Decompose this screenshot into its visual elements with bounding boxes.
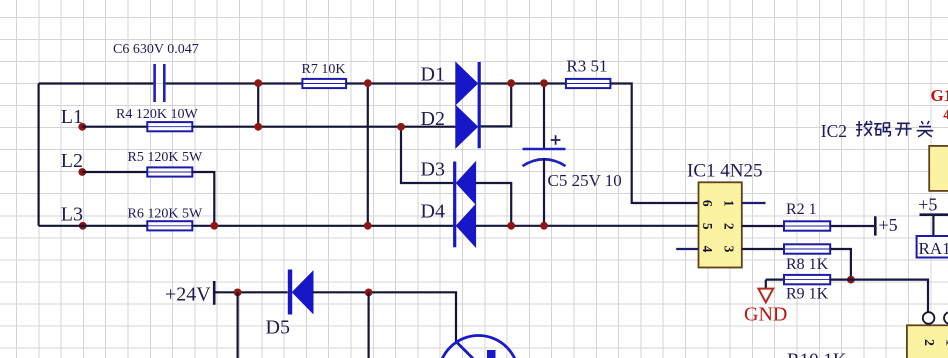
node junction bottom row at x511: [507, 222, 515, 230]
svg-text:R4 120K 10W: R4 120K 10W: [116, 107, 198, 122]
diode D1: [456, 63, 478, 105]
ground GND symbol: [758, 280, 773, 303]
transistor Q1 (partial circle): [439, 336, 519, 358]
wire: vertical from D1 row down then left to D2 cathode: [481, 84, 512, 127]
wire: D5 to transistor branch: [313, 292, 456, 342]
Chinese character guan (close): [917, 121, 934, 137]
svg-text:D3: D3: [421, 159, 445, 181]
node junction D1 row at x511: [507, 79, 515, 87]
resistor R8: [784, 244, 830, 253]
wire: left vertical bus: [37, 84, 39, 226]
wire: pin2 to R2: [742, 225, 784, 227]
node junction at x237: [234, 289, 242, 297]
wire: bottom row middle segment to D4: [192, 225, 453, 227]
svg-text:+24V: +24V: [165, 283, 211, 305]
node junction bottom row at x214: [210, 222, 218, 230]
resistor R5: [147, 167, 192, 176]
svg-text:L3: L3: [61, 204, 83, 226]
svg-text:2: 2: [722, 223, 737, 230]
capacitor C5: [523, 84, 566, 226]
capacitor C6: [155, 64, 165, 102]
svg-text:G1: G1: [931, 86, 948, 105]
node L2 terminal dot: [78, 168, 86, 176]
wire: R4 to D2 anode: [192, 126, 456, 128]
node junction bottom row at C5: [540, 222, 548, 230]
resistor R2: [784, 221, 830, 230]
wire: R7 to D1: [346, 82, 456, 84]
svg-text:C5 25V 10: C5 25V 10: [548, 171, 622, 190]
svg-text:3: 3: [722, 246, 737, 253]
svg-text:2: 2: [921, 339, 936, 346]
diode D5: [290, 270, 313, 315]
wire: vertical down from x237: [237, 292, 239, 358]
svg-text:D2: D2: [421, 108, 445, 130]
Chinese character ma (code): [874, 123, 890, 136]
wire: pin4 stub: [676, 248, 698, 250]
svg-text:R2 1: R2 1: [786, 201, 817, 218]
part RA1 box: [917, 236, 948, 258]
op-coupler IC1 4N25 body: [699, 182, 742, 267]
wire: +24V to D5: [214, 291, 287, 293]
Chinese character kai (open): [895, 123, 912, 135]
wire: C6 to R7: [166, 82, 303, 84]
svg-text:D5: D5: [266, 317, 290, 339]
wire: L1 to R4: [82, 126, 147, 128]
Chinese character bo (dial): [856, 121, 873, 136]
D3/D4 shared cathode bar: [453, 162, 456, 248]
svg-text:4: 4: [700, 246, 715, 253]
node junction on L1 row: [254, 123, 262, 131]
node junction R7 right: [364, 79, 372, 87]
node L1 terminal dot: [78, 123, 86, 131]
diode D2: [456, 106, 478, 148]
wire: D1 cathode row to R3: [481, 82, 566, 84]
svg-text:IC2: IC2: [821, 121, 847, 141]
svg-text:1: 1: [942, 339, 948, 346]
power port +24V: [213, 281, 216, 305]
svg-text:6: 6: [700, 200, 715, 207]
resistor R3: [566, 79, 611, 88]
svg-text:L2: L2: [61, 150, 83, 172]
diode D4: [456, 205, 475, 247]
node L3 terminal dot: [79, 222, 87, 230]
wire: D2 dot down to D3: [401, 127, 453, 183]
svg-text:1: 1: [722, 200, 737, 207]
svg-text:L1: L1: [61, 106, 83, 128]
connector circle IC2 pin 2: [923, 312, 935, 324]
resistor R6: [147, 221, 192, 230]
diode D3: [456, 162, 475, 204]
wire: bottom row left segment: [39, 225, 148, 227]
wire: vertical C6/R7 junction down to L1 row: [257, 84, 259, 127]
wire: vertical R7 junction down to bottom row: [367, 84, 369, 226]
svg-text:R10 1K: R10 1K: [787, 350, 847, 358]
wire: D3 anode right then down to bottom row: [476, 183, 512, 226]
wire: pin3 to R8: [742, 248, 784, 250]
svg-text:RA1: RA1: [919, 239, 948, 258]
svg-text:R5 120K 5W: R5 120K 5W: [128, 150, 203, 165]
wire: top row left segment to C6: [39, 82, 154, 84]
node junction at x368: [365, 289, 373, 297]
node junction D1 row at C5: [540, 79, 548, 87]
connector circle IC2 pin 1 (partial): [944, 312, 948, 324]
svg-text:R6 120K 5W: R6 120K 5W: [128, 207, 203, 222]
svg-text:D4: D4: [421, 200, 445, 222]
wire: R5 right then down to bottom row: [192, 172, 214, 226]
svg-text:R3 51: R3 51: [566, 56, 607, 75]
svg-text:D1: D1: [421, 64, 445, 86]
wire: L2 to R5: [82, 171, 147, 173]
wire: R2 to +5 port: [830, 225, 875, 227]
svg-text:R8 1K: R8 1K: [786, 256, 829, 273]
power port +5 (top right): [920, 215, 948, 236]
svg-text:C6 630V 0.047: C6 630V 0.047: [113, 42, 199, 57]
node junction C6-R7: [254, 79, 262, 87]
wire: GND to R9: [766, 279, 784, 281]
node junction bottom row at x367: [364, 222, 372, 230]
wire: bottom row from D4 to IC1 pin5: [476, 225, 699, 227]
svg-text:+5: +5: [918, 194, 937, 214]
D1/D2 shared cathode bar: [478, 62, 481, 148]
resistor R9: [784, 275, 830, 284]
wire: vertical down from x368: [368, 292, 370, 358]
resistor R7: [302, 79, 346, 88]
power port +5 (right of R2): [874, 216, 877, 235]
svg-text:R7 10K: R7 10K: [302, 62, 346, 77]
svg-text:+5: +5: [879, 215, 898, 235]
svg-text:R9 1K: R9 1K: [786, 286, 829, 303]
svg-text:IC1 4N25: IC1 4N25: [687, 161, 762, 182]
svg-text:4: 4: [943, 107, 948, 122]
node junction D2 anode: [397, 123, 405, 131]
wire: pin1 stub: [742, 202, 766, 204]
part of DIP switch block (top right corner): [929, 146, 948, 191]
wire: R3 right, down, to IC1 pin6: [610, 84, 698, 204]
wire: R9 right to IC2 pin: [830, 280, 928, 313]
node junction R8/R9: [847, 276, 855, 284]
svg-text:5: 5: [700, 223, 715, 230]
switch IC2 body (bottom right): [907, 325, 948, 358]
wire: R8 right then down to R9 row: [830, 249, 851, 280]
svg-text:GND: GND: [744, 304, 787, 326]
resistor R4: [147, 122, 192, 131]
